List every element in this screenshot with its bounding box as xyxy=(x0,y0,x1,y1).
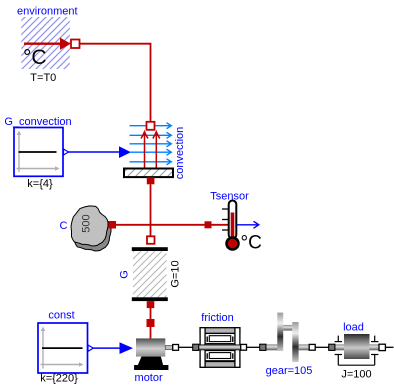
wire heat port into motor xyxy=(150,327,152,339)
svg-text:gear=105: gear=105 xyxy=(266,365,313,377)
load flange_a connector (filled) xyxy=(329,344,335,350)
friction bearing xyxy=(195,328,245,368)
Tsensor port connector (filled) xyxy=(205,221,212,228)
heat capacitor C xyxy=(71,206,111,251)
gear flange_a connector (filled) xyxy=(260,344,266,350)
blue air-flow arrows xyxy=(130,123,172,165)
motor flange connector (open) xyxy=(173,345,179,351)
gear flange_b connector (open) xyxy=(309,344,315,350)
svg-text:load: load xyxy=(343,322,364,334)
wire C to Tsensor xyxy=(116,224,229,226)
load inertia xyxy=(333,334,380,365)
wire G to motor heat port xyxy=(150,308,152,320)
svg-text:500: 500 xyxy=(81,214,93,232)
convection solid port connector (filled) xyxy=(147,177,155,184)
svg-text:G=10: G=10 xyxy=(170,260,182,287)
rising heat arrows xyxy=(141,132,160,169)
environment port connector xyxy=(71,40,80,49)
G port connector bottom (filled) xyxy=(147,301,155,308)
svg-text:convection: convection xyxy=(174,127,186,180)
svg-text:°C: °C xyxy=(23,46,47,69)
wire motor to friction xyxy=(179,346,194,348)
convection solid plate xyxy=(124,169,173,178)
friction flange_b connector (open) xyxy=(241,344,247,350)
motor input arrow xyxy=(120,342,134,354)
svg-text:T=T0: T=T0 xyxy=(30,72,56,84)
svg-text:°C: °C xyxy=(241,233,262,254)
motor xyxy=(134,338,173,370)
svg-text:C: C xyxy=(60,220,68,232)
svg-text:G: G xyxy=(119,270,131,279)
svg-text:J=100: J=100 xyxy=(341,369,371,381)
wire gear to load xyxy=(315,346,329,348)
wire environment to convection xyxy=(80,44,151,122)
svg-text:environment: environment xyxy=(17,6,78,18)
svg-text:k={4}: k={4} xyxy=(27,178,53,190)
motor heat port connector (filled) xyxy=(147,319,155,327)
C port connector (filled) xyxy=(109,221,117,229)
svg-text:motor: motor xyxy=(135,372,163,384)
environment fixed temperature source xyxy=(21,17,71,69)
Tsensor output signal wire xyxy=(237,221,259,228)
svg-text:friction: friction xyxy=(201,312,233,324)
wire friction to gear xyxy=(247,346,261,348)
load flange_b connector (open) xyxy=(379,344,385,350)
wire load flange_b stub xyxy=(386,346,394,348)
wire G_convection to convection xyxy=(69,151,121,153)
svg-text:const: const xyxy=(48,310,74,322)
convection fluid port connector (open) xyxy=(147,122,155,130)
G port connector top (open) xyxy=(147,236,155,244)
const block xyxy=(38,323,93,373)
wire const to motor xyxy=(93,347,120,349)
convection component xyxy=(124,123,173,177)
thermal conductor G xyxy=(132,247,168,301)
gear xyxy=(262,313,310,362)
svg-text:G_convection: G_convection xyxy=(4,116,71,128)
wire convection down to G xyxy=(150,184,152,236)
G_convection constant block xyxy=(14,128,69,177)
svg-text:k={220}: k={220} xyxy=(40,373,78,385)
Tsensor thermometer xyxy=(222,201,262,254)
friction flange_a connector (filled) xyxy=(193,344,199,350)
convection Gc input arrow xyxy=(119,146,131,158)
